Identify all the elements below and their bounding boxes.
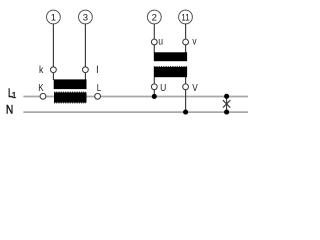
wire v to VT secondary [185, 45, 187, 53]
node k terminal circle [51, 67, 57, 73]
wire terminal2 to u [153, 24, 155, 39]
terminal 1 [47, 10, 61, 24]
wire terminal3 to l [84, 24, 86, 67]
fuse X symbol on branch [223, 100, 230, 107]
svg-text:K: K [38, 83, 44, 94]
svg-text:L: L [97, 83, 102, 94]
current transformer T1 secondary winding [54, 79, 87, 89]
svg-text:11: 11 [181, 12, 189, 23]
current transformer T1 primary winding [54, 92, 87, 103]
junction dot V-N [183, 110, 188, 115]
svg-text:N: N [6, 103, 13, 117]
svg-text:V: V [192, 83, 198, 94]
node U terminal circle [151, 84, 157, 90]
wire V to N [185, 90, 187, 112]
svg-text:1: 1 [51, 12, 56, 23]
voltage transformer T2 secondary winding [154, 52, 187, 61]
wire U to L1 [153, 90, 155, 97]
svg-text:2: 2 [152, 12, 157, 23]
terminal 2 [147, 10, 161, 24]
wire terminal1 to k [52, 24, 54, 67]
svg-text:3: 3 [83, 12, 88, 23]
wire u to VT secondary [153, 45, 155, 53]
node L terminal circle [95, 93, 101, 99]
node l terminal circle [83, 67, 89, 73]
wire branch L1 to N at right [226, 96, 228, 112]
svg-text:1: 1 [12, 90, 17, 100]
wire terminal11 to v [185, 24, 187, 39]
node V terminal circle [183, 84, 189, 90]
wire N line [23, 111, 248, 113]
svg-text:u: u [158, 37, 163, 48]
wire k to CT secondary [52, 73, 54, 81]
wire l to CT secondary [84, 73, 86, 81]
svg-text:U: U [160, 83, 166, 94]
terminal 11 [179, 10, 193, 24]
junction dot branch-L1 [224, 94, 229, 99]
terminal 3 [79, 10, 93, 24]
junction dot branch-N [224, 110, 229, 115]
node v terminal circle [183, 39, 189, 45]
junction dot U-L1 [152, 94, 157, 99]
node u terminal circle [151, 39, 157, 45]
svg-text:v: v [192, 37, 196, 48]
wire VT primary to U [153, 77, 155, 84]
wire VT primary to V [185, 77, 187, 84]
node K terminal circle [40, 93, 46, 99]
voltage transformer T2 primary winding [154, 67, 187, 78]
wire L1 line [23, 96, 248, 98]
svg-text:l: l [96, 65, 98, 76]
